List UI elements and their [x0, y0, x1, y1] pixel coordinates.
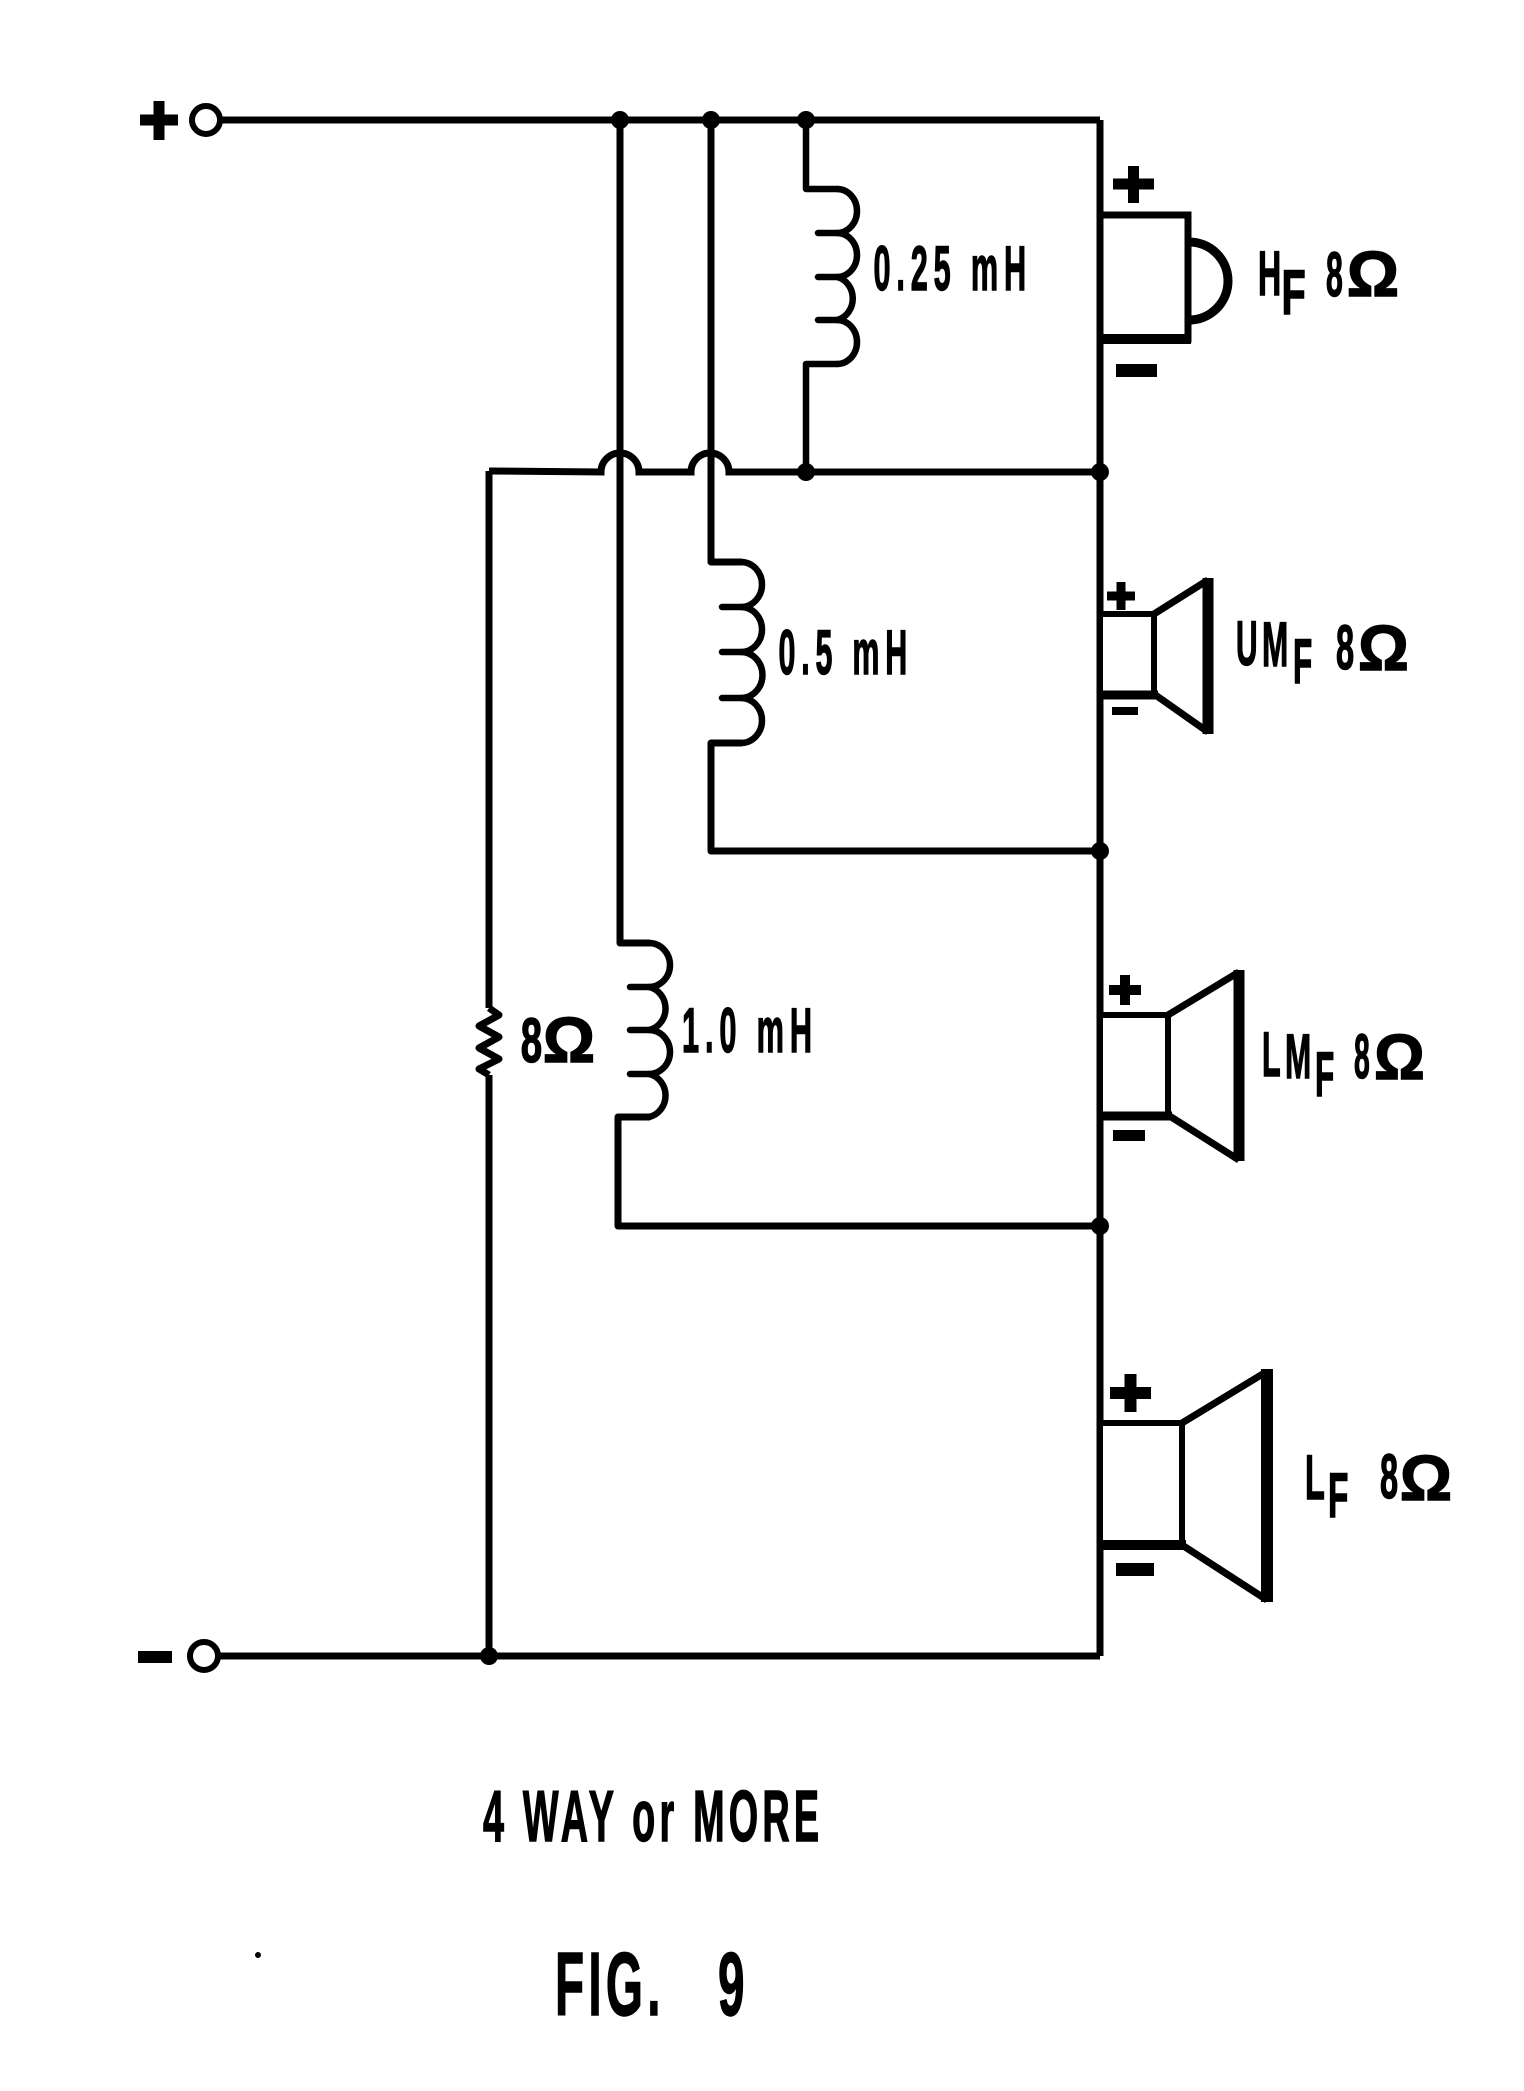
svg-text:M: M	[1262, 609, 1288, 680]
speaker L_F plus sign	[1110, 1374, 1151, 1412]
svg-text:1.0 mH: 1.0 mH	[682, 995, 818, 1066]
svg-text:8: 8	[1354, 1023, 1370, 1093]
resistor R 8ohm	[479, 1008, 499, 1075]
wire: left branch vertical (x=489) bottom part	[486, 1075, 493, 1656]
speaker L_F body	[1098, 1369, 1267, 1602]
label H_F 8 ohm	[1258, 238, 1399, 329]
speaker UM_F body	[1098, 578, 1208, 734]
svg-text:Ω: Ω	[543, 1004, 595, 1076]
speaker LM_F plus sign	[1109, 975, 1141, 1005]
svg-text:F: F	[1282, 258, 1306, 329]
svg-text:F: F	[1328, 1460, 1348, 1531]
svg-text:8: 8	[1380, 1441, 1398, 1511]
svg-text:8: 8	[521, 1006, 542, 1076]
svg-text:Ω: Ω	[1347, 238, 1399, 310]
svg-text:L: L	[1305, 1442, 1325, 1512]
wire: bottom bus from - terminal to right rail	[218, 1653, 1100, 1660]
junction dot right rail y=472	[1091, 463, 1109, 481]
speaker UM_F plus sign	[1107, 582, 1135, 610]
svg-text:0.5 mH: 0.5 mH	[779, 618, 914, 688]
junction dot top bus x=806	[797, 111, 815, 129]
wire: right vertical rail	[1097, 120, 1104, 1656]
junction dot top bus x=711	[702, 111, 720, 129]
wire: left branch vertical (x=489) top part	[486, 471, 493, 1008]
stray ink dot	[255, 1952, 261, 1958]
svg-text:H: H	[1258, 238, 1281, 309]
terminal minus sign (negative input)	[138, 1651, 172, 1663]
svg-text:0.25 mH: 0.25 mH	[874, 234, 1033, 304]
wire: bottom of UM_F loop (y=851)	[711, 848, 1100, 855]
speaker H_F tweeter minus sign	[1116, 364, 1157, 377]
svg-text:8: 8	[1326, 240, 1343, 310]
speaker H_F tweeter body	[1098, 215, 1228, 339]
label UM_F 8 ohm	[1236, 609, 1409, 697]
wire: bottom of LM_F loop (y=1226)	[618, 1223, 1100, 1230]
speaker L_F minus sign	[1116, 1563, 1154, 1576]
svg-text:F: F	[1293, 626, 1312, 697]
inductor L1 0.25 mH	[806, 120, 857, 472]
svg-text:8: 8	[1336, 612, 1354, 682]
wire: second horizontal bus (y=472) with crossover hops	[489, 453, 1100, 472]
svg-text:Ω: Ω	[1400, 1442, 1452, 1514]
junction dot top bus x=620	[611, 111, 629, 129]
junction dot right rail y=1226	[1091, 1217, 1109, 1235]
svg-text:9: 9	[718, 1935, 745, 2035]
speaker LM_F minus sign	[1113, 1130, 1145, 1141]
terminal circle (positive input)	[192, 106, 220, 134]
terminal plus sign (positive input)	[140, 101, 178, 140]
label LM_F 8 ohm	[1262, 1020, 1425, 1110]
svg-text:L: L	[1262, 1020, 1281, 1090]
svg-text:4 WAY or MORE: 4 WAY or MORE	[483, 1777, 823, 1857]
terminal circle (negative input)	[190, 1642, 218, 1670]
svg-text:Ω: Ω	[1358, 613, 1409, 684]
speaker H_F tweeter plus sign	[1113, 166, 1154, 203]
svg-text:Ω: Ω	[1374, 1022, 1425, 1093]
inductor L3 1.0 mH with feed wire from top bus	[618, 120, 670, 1226]
junction dot bottom bus x=489	[480, 1647, 498, 1665]
junction dot right rail y=851	[1091, 842, 1109, 860]
speaker UM_F minus sign	[1112, 707, 1138, 715]
junction dot second bus x=806	[797, 463, 815, 481]
svg-text:U: U	[1236, 609, 1258, 679]
wire: top bus from + terminal to right rail	[221, 117, 1100, 124]
svg-text:F: F	[1315, 1039, 1334, 1110]
label L_F 8 ohm	[1305, 1441, 1452, 1530]
speaker LM_F body	[1098, 970, 1239, 1161]
inductor L2 0.5 mH with feed wire from top bus	[711, 120, 762, 851]
svg-text:FIG.: FIG.	[555, 1935, 665, 2035]
svg-text:M: M	[1285, 1021, 1311, 1092]
